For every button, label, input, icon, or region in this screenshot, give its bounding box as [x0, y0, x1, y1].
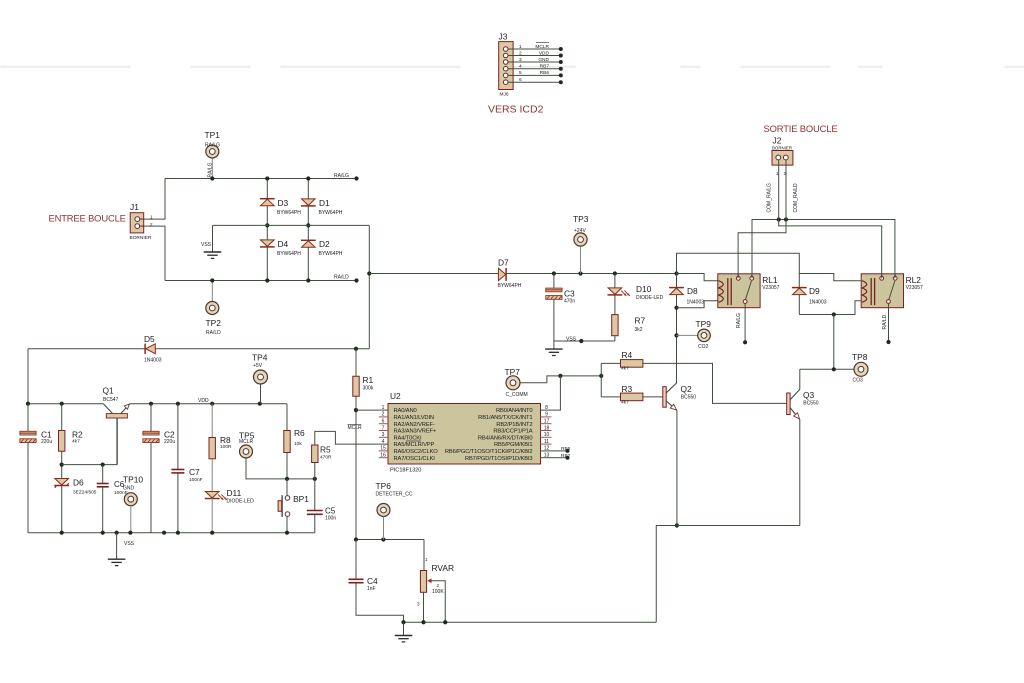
svg-text:VERS ICD2: VERS ICD2 — [488, 104, 544, 116]
svg-text:MCLR: MCLR — [535, 44, 549, 50]
svg-text:1: 1 — [382, 405, 385, 411]
svg-text:VDD: VDD — [198, 398, 209, 404]
svg-text:TP2: TP2 — [206, 318, 222, 328]
svg-text:C3: C3 — [564, 289, 575, 299]
svg-text:GND: GND — [538, 57, 549, 63]
svg-text:MJ6: MJ6 — [500, 92, 509, 98]
svg-text:MCLR: MCLR — [348, 425, 363, 431]
svg-text:BC550: BC550 — [803, 400, 819, 406]
svg-text:RB7: RB7 — [540, 64, 550, 70]
svg-text:D8: D8 — [687, 286, 698, 296]
svg-text:RA7/OSC1/CLKI: RA7/OSC1/CLKI — [394, 456, 436, 462]
svg-text:RL1: RL1 — [762, 275, 778, 285]
svg-text:RB0/AN4/INT0: RB0/AN4/INT0 — [496, 408, 533, 414]
svg-text:COM_RA/LG: COM_RA/LG — [766, 183, 772, 213]
svg-text:TP3: TP3 — [573, 214, 589, 224]
svg-text:18: 18 — [544, 425, 550, 431]
svg-text:BYW64PH: BYW64PH — [277, 210, 301, 216]
svg-text:VSS: VSS — [566, 337, 577, 343]
svg-text:300k: 300k — [363, 386, 374, 392]
svg-text:V23057: V23057 — [762, 285, 779, 291]
svg-text:C2: C2 — [164, 430, 175, 440]
svg-text:TP7: TP7 — [505, 367, 521, 377]
svg-text:8: 8 — [545, 405, 548, 411]
svg-text:100n: 100n — [325, 516, 336, 522]
svg-text:D7: D7 — [498, 258, 509, 268]
svg-text:17: 17 — [544, 419, 550, 425]
svg-text:BORNIER: BORNIER — [130, 235, 152, 241]
svg-text:ENTREE BOUCLE: ENTREE BOUCLE — [49, 213, 126, 224]
svg-text:100nF: 100nF — [189, 477, 203, 483]
svg-text:RB6/PGC/T1OSO/T1CKI/P1C/KBI2: RB6/PGC/T1OSO/T1CKI/P1C/KBI2 — [445, 449, 533, 455]
svg-text:C5: C5 — [325, 507, 336, 516]
svg-text:J3: J3 — [499, 32, 508, 42]
svg-text:6: 6 — [519, 77, 522, 83]
svg-text:V23057: V23057 — [906, 285, 923, 291]
svg-text:RB7: RB7 — [561, 453, 571, 459]
svg-text:D11: D11 — [227, 488, 242, 498]
svg-text:RA/LG: RA/LG — [205, 143, 220, 149]
svg-text:RA3/AN3/VREF+: RA3/AN3/VREF+ — [394, 429, 437, 435]
svg-text:D6: D6 — [73, 478, 84, 488]
svg-text:TP6: TP6 — [376, 481, 392, 491]
svg-text:4: 4 — [519, 64, 522, 70]
svg-text:TP10: TP10 — [123, 475, 143, 485]
svg-text:2: 2 — [382, 412, 385, 418]
svg-text:RA1/AN1/LVDIN: RA1/AN1/LVDIN — [394, 415, 434, 421]
svg-text:D9: D9 — [809, 286, 820, 296]
svg-text:1: 1 — [425, 557, 428, 562]
svg-text:16: 16 — [380, 453, 386, 459]
svg-text:3k2: 3k2 — [635, 327, 643, 333]
svg-text:+24V: +24V — [574, 228, 586, 234]
svg-text:CO2: CO2 — [698, 344, 709, 350]
svg-text:4k7: 4k7 — [621, 399, 629, 405]
svg-text:R4: R4 — [622, 350, 633, 360]
svg-text:TP8: TP8 — [852, 352, 868, 362]
svg-text:RA2/AN2/VREF-: RA2/AN2/VREF- — [394, 422, 435, 428]
svg-text:BYW64PH: BYW64PH — [498, 283, 522, 289]
svg-text:TP1: TP1 — [205, 130, 221, 140]
svg-text:RVAR: RVAR — [432, 563, 455, 573]
svg-text:R1: R1 — [363, 375, 374, 385]
svg-text:R3: R3 — [622, 384, 633, 394]
svg-text:RB2/P1B/INT2: RB2/P1B/INT2 — [496, 422, 532, 428]
svg-text:RB1/AN5/TX/CK/INT1: RB1/AN5/TX/CK/INT1 — [478, 415, 532, 421]
svg-text:1N4003: 1N4003 — [687, 299, 705, 305]
svg-text:BYW64PH: BYW64PH — [277, 251, 301, 257]
svg-text:VDD: VDD — [539, 50, 550, 56]
svg-text:RA/LD: RA/LD — [206, 330, 221, 336]
svg-text:BORNIER: BORNIER — [772, 146, 792, 151]
svg-text:3: 3 — [382, 432, 385, 438]
svg-text:GND: GND — [123, 486, 135, 492]
svg-text:COM_RA/LD: COM_RA/LD — [793, 183, 799, 213]
svg-text:15: 15 — [380, 446, 386, 452]
svg-text:RA5/MCLR/VPP: RA5/MCLR/VPP — [394, 442, 435, 448]
svg-text:D2: D2 — [319, 239, 330, 249]
svg-text:TP9: TP9 — [696, 319, 712, 329]
svg-text:470R: 470R — [320, 455, 332, 461]
svg-text:1: 1 — [519, 44, 522, 50]
svg-text:D3: D3 — [278, 198, 289, 208]
svg-text:220u: 220u — [41, 439, 52, 445]
svg-text:VSS: VSS — [201, 242, 212, 248]
svg-text:R8: R8 — [220, 435, 231, 445]
svg-text:100K: 100K — [432, 589, 444, 595]
svg-text:BP1: BP1 — [293, 494, 309, 504]
svg-text:9: 9 — [545, 412, 548, 418]
svg-text:MCLR: MCLR — [239, 439, 254, 445]
svg-text:4k7: 4k7 — [72, 438, 80, 444]
svg-text:2: 2 — [150, 222, 153, 227]
svg-text:220u: 220u — [164, 439, 175, 445]
svg-text:PIC18F1320: PIC18F1320 — [390, 468, 421, 474]
svg-text:1nF: 1nF — [367, 586, 376, 592]
svg-text:6: 6 — [382, 419, 385, 425]
svg-text:7: 7 — [382, 425, 385, 431]
svg-text:DIODE-LED: DIODE-LED — [636, 295, 664, 301]
svg-text:RA6/OSC2/CLKO: RA6/OSC2/CLKO — [394, 449, 439, 455]
svg-text:100R: 100R — [220, 444, 232, 450]
svg-text:Q2: Q2 — [681, 384, 693, 394]
svg-text:R5: R5 — [320, 445, 331, 455]
svg-text:BYW64PH: BYW64PH — [319, 210, 343, 216]
svg-text:RB6: RB6 — [540, 70, 550, 76]
svg-text:RA/LD: RA/LD — [334, 275, 349, 281]
svg-text:RA/LG: RA/LG — [736, 313, 742, 328]
svg-text:RB6: RB6 — [561, 446, 571, 452]
svg-text:RB3/CCP1/P1A: RB3/CCP1/P1A — [493, 429, 532, 435]
svg-text:BC547: BC547 — [103, 397, 119, 403]
svg-text:RB4/AN6/RX/DT/KBI0: RB4/AN6/RX/DT/KBI0 — [478, 435, 533, 441]
svg-text:RB5/PGM/KBI1: RB5/PGM/KBI1 — [494, 442, 532, 448]
svg-text:RA/LG: RA/LG — [207, 162, 213, 177]
svg-text:Q1: Q1 — [103, 386, 115, 396]
svg-text:BYW64PH: BYW64PH — [319, 251, 343, 257]
svg-text:R7: R7 — [635, 316, 646, 326]
svg-text:VSS: VSS — [124, 541, 135, 547]
svg-text:1N4003: 1N4003 — [144, 358, 162, 364]
svg-text:470n: 470n — [564, 298, 575, 304]
svg-text:D1: D1 — [319, 198, 330, 208]
svg-text:DIODE-LED: DIODE-LED — [227, 498, 255, 504]
svg-text:J1: J1 — [130, 202, 139, 212]
svg-text:TP4: TP4 — [252, 353, 268, 363]
svg-text:U2: U2 — [390, 391, 401, 401]
svg-text:+5V: +5V — [253, 363, 263, 369]
svg-text:1N4003: 1N4003 — [809, 299, 827, 305]
svg-text:C_COMM: C_COMM — [506, 392, 528, 398]
svg-text:D10: D10 — [636, 284, 652, 294]
svg-text:5: 5 — [519, 70, 522, 76]
svg-text:13: 13 — [544, 453, 550, 459]
svg-text:2: 2 — [437, 583, 440, 588]
svg-text:12: 12 — [544, 446, 550, 452]
svg-text:RA0/AN0: RA0/AN0 — [394, 408, 417, 414]
svg-text:RL2: RL2 — [906, 275, 922, 285]
svg-text:SORTIE BOUCLE: SORTIE BOUCLE — [764, 123, 838, 134]
svg-text:3EZ24/605: 3EZ24/605 — [73, 490, 97, 496]
svg-text:C7: C7 — [189, 467, 200, 477]
svg-text:1: 1 — [150, 215, 153, 220]
svg-text:CO3: CO3 — [853, 378, 864, 384]
svg-text:10k: 10k — [294, 441, 302, 447]
svg-text:D4: D4 — [278, 239, 289, 249]
svg-text:RA4/T0CKI: RA4/T0CKI — [394, 435, 423, 441]
svg-text:R6: R6 — [294, 428, 305, 438]
svg-text:3: 3 — [519, 57, 522, 63]
svg-text:Q3: Q3 — [803, 390, 815, 400]
svg-text:RA/LG: RA/LG — [334, 173, 349, 179]
svg-text:11: 11 — [544, 439, 549, 445]
svg-text:J2: J2 — [773, 136, 782, 146]
svg-text:R2: R2 — [72, 430, 83, 440]
svg-text:C1: C1 — [41, 430, 52, 440]
svg-text:BC550: BC550 — [681, 394, 697, 400]
svg-text:D5: D5 — [144, 334, 155, 344]
svg-text:10: 10 — [544, 432, 550, 438]
svg-text:2: 2 — [519, 50, 522, 56]
svg-text:3: 3 — [417, 602, 420, 607]
svg-text:C4: C4 — [367, 576, 378, 586]
svg-text:RA/LD: RA/LD — [882, 314, 888, 329]
svg-text:4k7: 4k7 — [621, 365, 629, 371]
svg-text:DETECTER_CC: DETECTER_CC — [376, 492, 413, 498]
svg-text:RB7/PGD/T1OSI/P1D/KBI3: RB7/PGD/T1OSI/P1D/KBI3 — [465, 456, 533, 462]
svg-text:4: 4 — [382, 439, 385, 445]
